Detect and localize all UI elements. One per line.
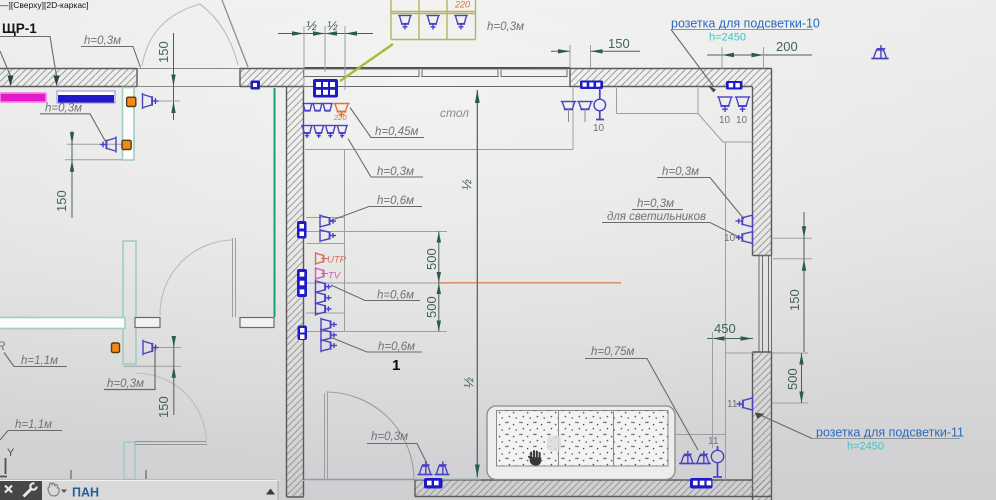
sofa <box>487 406 675 480</box>
kitchen cup row 1 <box>302 104 333 111</box>
label h=0,3m kitchen <box>348 139 423 179</box>
svg-text:—][Сверху][2D-каркас]: —][Сверху][2D-каркас] <box>0 0 89 10</box>
door left-room: panel and arc <box>160 238 236 317</box>
dim 500 right wall <box>772 353 808 403</box>
big blue socket block <box>313 79 338 98</box>
svg-text:200: 200 <box>776 39 798 54</box>
svg-text:h=0,45м: h=0,45м <box>375 126 418 138</box>
svg-text:150: 150 <box>608 36 630 51</box>
leader from off-screen label <box>0 51 14 86</box>
label h=1,1m lower <box>0 419 62 440</box>
bottom-right up cups pair <box>679 451 711 464</box>
svg-text:h=0,3м: h=0,3м <box>487 21 524 33</box>
tick above toolbar <box>71 470 146 479</box>
UCS icon Y axis <box>0 447 15 477</box>
kitchen cup row 2 <box>301 126 348 139</box>
label h=0,6m #2 <box>331 285 420 302</box>
svg-text:h=0,6м: h=0,6м <box>378 341 415 353</box>
dim 150 right wall <box>773 212 812 352</box>
magenta bar <box>0 93 46 102</box>
door bottom-left: panel and arc <box>135 373 207 445</box>
dim 150 left-bottom <box>124 336 182 418</box>
wall right hatched lower <box>753 352 772 500</box>
label h=0,45m <box>350 108 424 139</box>
svg-text:500: 500 <box>424 296 439 318</box>
wall top hatched segment 2 <box>240 69 304 87</box>
kitchen hang cups pair <box>561 102 593 123</box>
svg-text:150: 150 <box>156 396 171 418</box>
wall block top-right (2sq) <box>726 81 743 90</box>
bottom-right blue block <box>690 478 713 489</box>
svg-text:h=0,6м: h=0,6м <box>377 290 414 302</box>
svg-text:ПАН: ПАН <box>72 486 99 500</box>
label h=0,3m right A <box>657 166 744 219</box>
socket right of teal column A (flat left) <box>143 93 159 109</box>
legend cups in table <box>398 16 468 30</box>
svg-text:h=0,75м: h=0,75м <box>591 346 634 358</box>
svg-text:150: 150 <box>787 289 802 311</box>
svg-text:h=1,1м: h=1,1м <box>21 355 58 367</box>
orange cup row 1 <box>333 104 349 118</box>
svg-text:h=0,3м: h=0,3м <box>107 378 144 390</box>
orange square 3 <box>112 343 120 353</box>
svg-text:10: 10 <box>736 115 748 126</box>
svg-text:R: R <box>0 341 5 353</box>
svg-text:стол: стол <box>440 106 469 120</box>
svg-text:h=0,3м: h=0,3м <box>637 198 674 210</box>
wall right hatched upper <box>753 69 772 256</box>
svg-text:h=0,6м: h=0,6м <box>377 195 414 207</box>
teal column B <box>123 241 136 364</box>
TV socket and text <box>316 267 329 280</box>
label h=0,3m top-left <box>81 35 141 68</box>
dim 450 bottom right <box>707 321 753 448</box>
blue bar <box>57 91 115 103</box>
svg-text:ЩР-1: ЩР-1 <box>2 21 37 36</box>
label h=0,3m left <box>40 103 106 142</box>
svg-text:220: 220 <box>333 113 347 122</box>
label h=1,1m upper <box>0 341 67 367</box>
wall top hatched segment left <box>0 69 137 87</box>
teal wall band left <box>0 318 125 329</box>
leader rozetka-10 <box>671 17 820 93</box>
window band right wall <box>759 256 772 353</box>
dim 200 top wall right <box>707 39 812 69</box>
wall block B1 <box>297 221 307 239</box>
svg-text:Y: Y <box>7 447 15 459</box>
label h=0,3m bottom door <box>367 431 427 464</box>
bottom door blue block <box>424 478 443 489</box>
svg-text:розетка для подсветки-11: розетка для подсветки-11 <box>816 426 964 440</box>
svg-text:10: 10 <box>724 233 736 244</box>
yellow legend table <box>391 0 476 40</box>
svg-text:h=0,3м: h=0,3м <box>662 166 699 178</box>
toolbar <box>0 480 278 500</box>
svg-text:10: 10 <box>719 115 731 126</box>
svg-text:500: 500 <box>785 368 800 390</box>
right wall socket 11 (flat right) <box>737 397 753 412</box>
wall top hatched segment right <box>570 69 772 87</box>
kitchen lamp circle <box>594 88 606 120</box>
svg-text:150: 150 <box>156 41 171 63</box>
wall bottom hatched <box>415 480 772 497</box>
svg-text:h=0,3м: h=0,3м <box>84 35 121 47</box>
label h=0,6m #3 <box>330 337 422 353</box>
door top-left: swing arcs and panel <box>142 0 248 67</box>
svg-text:10: 10 <box>593 123 605 134</box>
label h=0,6m #1 <box>331 195 422 221</box>
svg-text:h=2450: h=2450 <box>847 441 884 453</box>
bottom-right lamp circle with stem <box>711 446 723 477</box>
label ЩР-1 <box>0 21 60 86</box>
orange reference line <box>439 282 621 284</box>
watermark blob <box>547 436 561 451</box>
top-right hang cups pair <box>717 97 750 112</box>
leader rozetka-11 <box>755 413 964 453</box>
label h=0,3m для светильников <box>602 198 741 238</box>
UTP socket and text <box>316 252 329 265</box>
sockets group G3 (flat left) <box>316 280 332 316</box>
label h=0,75m <box>585 346 698 450</box>
teal threshold line bottom <box>304 479 482 481</box>
dim 150 left mid <box>54 131 122 218</box>
svg-text:½: ½ <box>461 377 476 388</box>
svg-text:½: ½ <box>327 18 338 33</box>
small blue square on wall <box>251 81 261 90</box>
label h=0,3m left-bottom <box>104 348 155 390</box>
dim 500 pair central <box>424 232 441 332</box>
hand cursor <box>528 450 541 466</box>
dim 150 top wall <box>551 36 640 68</box>
sockets group G1 (flat left) <box>320 214 336 242</box>
svg-text:h=0,3м: h=0,3м <box>377 166 414 178</box>
window band top wall <box>304 68 571 87</box>
socket on teal column left (flat right) <box>100 136 116 152</box>
orange square 2 <box>122 140 131 149</box>
orange square 1 <box>127 97 136 106</box>
svg-text:h=0,3м: h=0,3м <box>371 431 408 443</box>
svg-text:½: ½ <box>459 179 474 190</box>
right wall sockets 10 (flat right) <box>736 214 753 245</box>
svg-text:h=1,1м: h=1,1м <box>15 419 52 431</box>
svg-text:h=0,3м: h=0,3м <box>45 103 82 115</box>
wall top door opening band <box>137 69 240 87</box>
dim 150 top-left vertical leader <box>152 33 180 120</box>
svg-text:UTP: UTP <box>327 255 347 266</box>
teal door jamb bottom-left <box>124 442 135 480</box>
yellow leader to block <box>340 44 393 81</box>
svg-text:11: 11 <box>708 436 719 447</box>
counter lines central room <box>305 88 753 480</box>
wall block B2 <box>297 269 307 297</box>
wall block B3 <box>298 326 308 341</box>
green riser line <box>274 88 276 317</box>
svg-text:h=2450: h=2450 <box>709 32 746 44</box>
svg-text:220: 220 <box>454 0 470 10</box>
svg-text:450: 450 <box>714 321 736 336</box>
socket near stub (flat left) <box>143 340 159 356</box>
svg-text:½: ½ <box>306 18 317 33</box>
svg-text:11: 11 <box>727 399 738 410</box>
wall stub right door jamb <box>240 318 274 328</box>
svg-text:500: 500 <box>424 248 439 270</box>
door bottom-centre: panel and arc <box>325 392 415 480</box>
bottom door up cups pair <box>418 461 450 474</box>
svg-text:для светильников: для светильников <box>607 211 706 223</box>
wall left of central room <box>287 87 304 498</box>
svg-text:150: 150 <box>54 190 69 212</box>
sockets group G4 (flat left) <box>321 318 337 353</box>
isolated ceiling symbol top right <box>871 45 888 58</box>
dim 1/2 1/2 top <box>278 18 373 90</box>
wall stub left door jamb <box>135 318 160 328</box>
extension lines 500-dims central <box>306 232 450 332</box>
dim 1/2 vertical central <box>459 90 480 478</box>
svg-text:TV: TV <box>328 271 342 282</box>
svg-text:розетка для подсветки-10: розетка для подсветки-10 <box>671 17 820 31</box>
wall block kitchen top (3sq) <box>580 81 603 90</box>
teal column A <box>123 88 135 161</box>
svg-text:1: 1 <box>392 357 400 374</box>
